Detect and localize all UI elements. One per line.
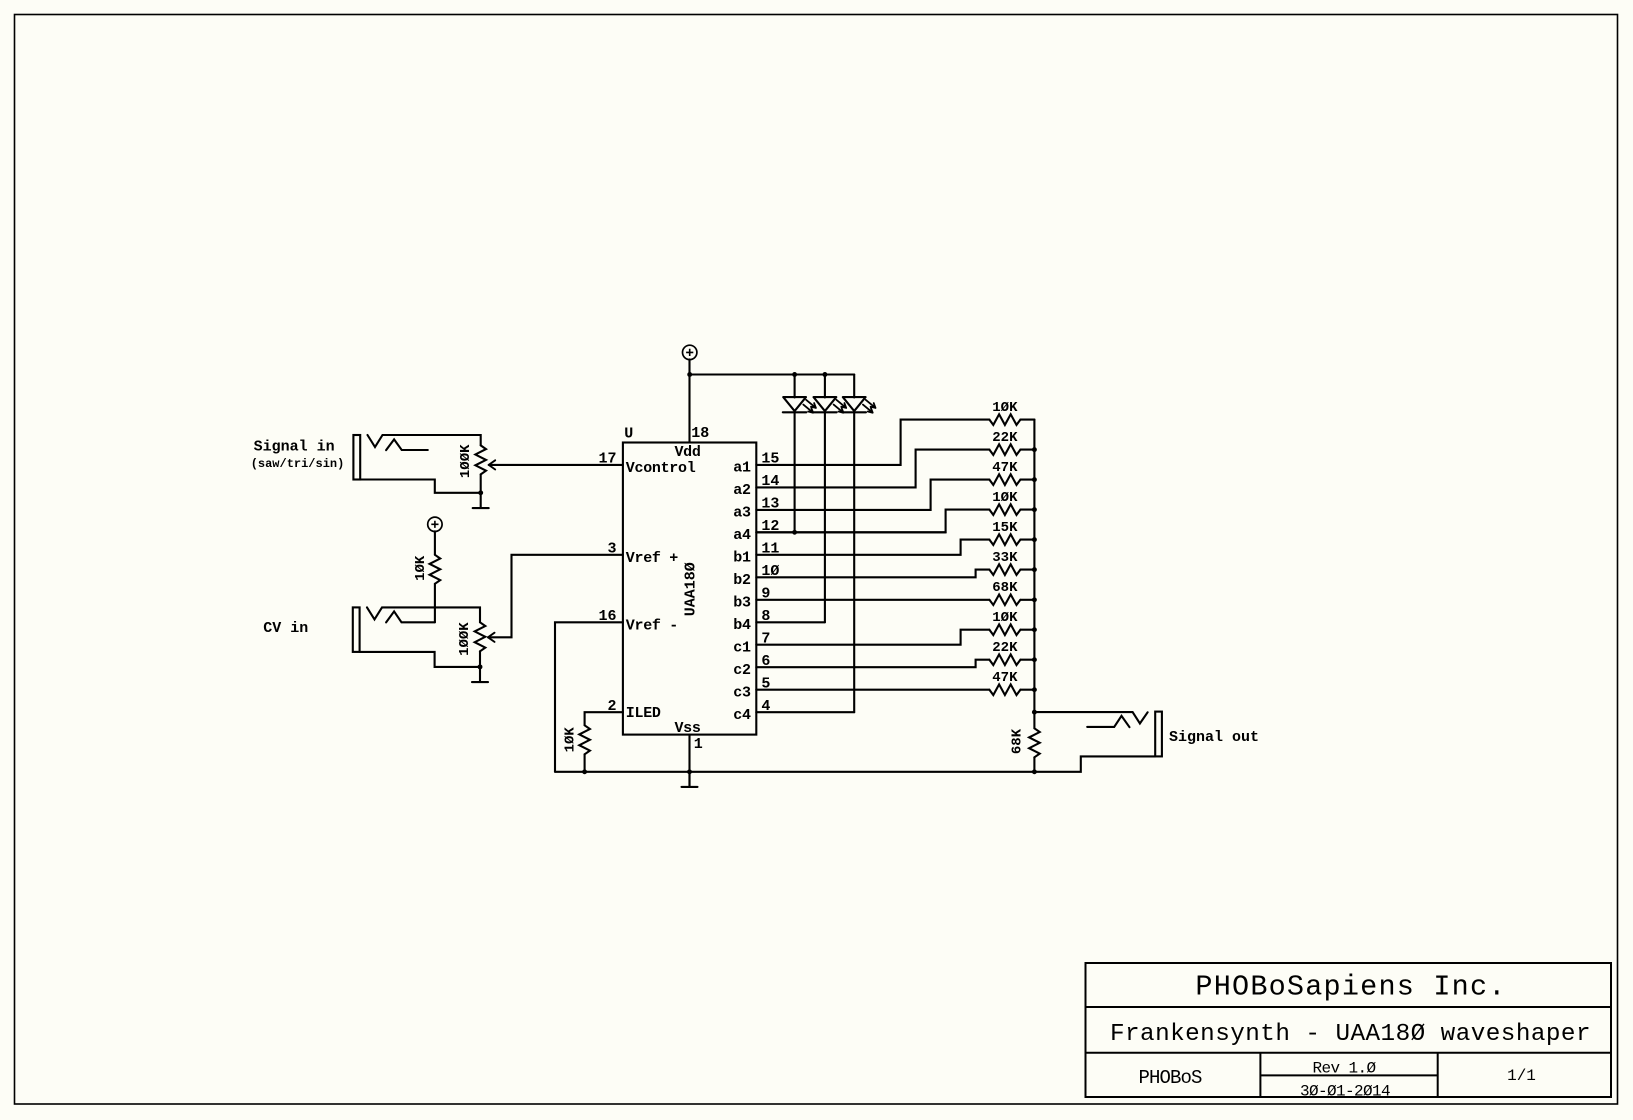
resistor 15K ladder: [989, 520, 1034, 545]
svg-text:b1: b1: [733, 550, 751, 567]
junction: [1032, 537, 1037, 542]
resistor 10K CV pullup: [413, 555, 440, 584]
svg-text:22K: 22K: [992, 640, 1018, 656]
junction: [1032, 657, 1037, 662]
junction: [1032, 477, 1037, 482]
svg-text:68K: 68K: [992, 580, 1018, 596]
resistor 1ØK ladder: [989, 610, 1034, 635]
wire +V bus to LEDs: [690, 373, 855, 375]
wire pin 5 c3: [756, 689, 989, 691]
wire pin 4 c4: [756, 711, 854, 713]
resistor 1ØK ladder: [989, 400, 1034, 425]
resistor 47K ladder: [989, 670, 1034, 695]
svg-text:Vref +: Vref +: [626, 550, 679, 567]
wire Vcontrol pin 17: [489, 464, 623, 466]
svg-text:ILED: ILED: [626, 705, 661, 722]
svg-text:c3: c3: [733, 685, 751, 702]
svg-text:PHOBoSapiens Inc.: PHOBoSapiens Inc.: [1195, 970, 1506, 1003]
svg-text:1ØØK: 1ØØK: [458, 444, 474, 478]
LED D1: [783, 397, 816, 413]
wire pin 12 a4: [756, 510, 989, 533]
junction pot1 ground: [478, 490, 483, 495]
junction ground rail output: [1032, 769, 1037, 774]
wire pin 11 b1: [756, 540, 989, 555]
junction: [1032, 597, 1037, 602]
connector jack CV in: [263, 607, 480, 667]
svg-text:(saw/tri/sin): (saw/tri/sin): [251, 457, 345, 471]
junction Vss rail: [687, 769, 692, 774]
svg-text:1/1: 1/1: [1507, 1067, 1536, 1085]
wire pin 15 a1: [756, 420, 989, 465]
power +V CV pullup: [428, 517, 442, 531]
LED D3: [842, 397, 875, 413]
svg-text:Frankensynth - UAA18Ø waveshap: Frankensynth - UAA18Ø waveshaper: [1110, 1021, 1591, 1048]
svg-text:22K: 22K: [992, 430, 1018, 446]
svg-text:18: 18: [691, 425, 709, 442]
resistor 22K ladder: [989, 640, 1034, 665]
wire pin 1Ø b2: [756, 570, 989, 578]
svg-text:a3: a3: [733, 505, 751, 522]
svg-text:a1: a1: [733, 460, 751, 477]
wire pin 9 b3: [756, 599, 989, 601]
wire pin 14 a2: [756, 450, 989, 488]
potentiometer 100K signal level: [458, 444, 495, 493]
svg-text:47K: 47K: [992, 670, 1018, 686]
junction output node: [1032, 710, 1037, 715]
resistor 68K ladder: [989, 580, 1034, 605]
ground pot2: [472, 667, 488, 682]
svg-text:Vcontrol: Vcontrol: [626, 460, 696, 477]
svg-text:a4: a4: [733, 527, 751, 544]
wire LED2 cathode to b4: [824, 412, 826, 622]
junction ILED resistor rail: [582, 769, 587, 774]
svg-text:c2: c2: [733, 662, 751, 679]
junction: [1032, 507, 1037, 512]
wire +V to 10K: [434, 531, 436, 555]
wire LED1 anode: [794, 375, 796, 398]
svg-text:Vref -: Vref -: [626, 617, 678, 634]
junction: [1032, 567, 1037, 572]
svg-text:1: 1: [694, 736, 703, 753]
svg-text:Rev 1.Ø: Rev 1.Ø: [1312, 1059, 1376, 1077]
connector jack Signal out: [1034, 712, 1259, 772]
resistor 47K ladder: [989, 460, 1034, 485]
svg-text:47K: 47K: [992, 460, 1018, 476]
wire ILED pin 2: [585, 712, 623, 725]
svg-text:1ØØK: 1ØØK: [457, 622, 473, 656]
wire pin 12 a4: [756, 531, 945, 533]
resistor 1ØK ladder: [989, 490, 1034, 515]
wire pin 8 b4: [756, 621, 825, 623]
svg-text:1ØK: 1ØK: [992, 490, 1018, 506]
junction: [1032, 447, 1037, 452]
wire Vss pin 1: [688, 735, 690, 787]
junction LED1 anode tap: [792, 372, 797, 377]
svg-text:b2: b2: [733, 572, 751, 589]
svg-text:68K: 68K: [1010, 728, 1026, 754]
wire 10K to jack switch: [434, 584, 436, 623]
power +V supply (top): [683, 345, 697, 359]
svg-text:CV in: CV in: [263, 620, 308, 637]
wire ground rail: [555, 771, 1034, 773]
svg-text:Vdd: Vdd: [674, 444, 700, 461]
svg-text:Signal in: Signal in: [254, 439, 335, 456]
wire pin 13 a3: [756, 480, 989, 510]
svg-text:b3: b3: [733, 595, 751, 612]
wire Vref- pin 16: [555, 622, 623, 772]
svg-text:3Ø-Ø1-2Ø14: 3Ø-Ø1-2Ø14: [1300, 1082, 1390, 1100]
svg-text:1ØK: 1ØK: [413, 555, 429, 581]
svg-text:U: U: [624, 426, 633, 443]
junction: [1032, 687, 1037, 692]
svg-text:b4: b4: [733, 617, 751, 634]
wire LED3 cathode to c4: [853, 412, 855, 712]
junction a4 LED1: [792, 530, 797, 535]
svg-text:UAA18Ø: UAA18Ø: [682, 562, 699, 616]
resistor 22K ladder: [989, 430, 1034, 455]
wire pin 6 c2: [756, 660, 989, 668]
wire summing bus: [1033, 420, 1035, 712]
svg-text:PHOBoS: PHOBoS: [1138, 1067, 1202, 1089]
wire Vref+ pin 3: [488, 555, 623, 638]
resistor 33K ladder: [989, 550, 1034, 575]
resistor 68K output: [1010, 712, 1040, 772]
svg-text:1ØK: 1ØK: [992, 610, 1018, 626]
svg-text:15K: 15K: [992, 520, 1018, 536]
svg-text:Signal out: Signal out: [1169, 729, 1259, 746]
svg-text:c4: c4: [733, 707, 751, 724]
junction: [1032, 627, 1037, 632]
svg-text:c1: c1: [733, 640, 751, 657]
wire LED3 anode: [853, 375, 855, 398]
wire LED2 anode: [824, 375, 826, 398]
svg-text:1ØK: 1ØK: [563, 727, 579, 753]
junction +V: [687, 372, 692, 377]
wire LED1 cathode to a4: [794, 412, 796, 532]
ground Vss: [682, 772, 698, 787]
resistor 10K ILED: [563, 725, 590, 772]
IC U UAA180: [598, 425, 779, 753]
junction pot2 ground: [478, 664, 483, 669]
connector jack Signal in: [251, 435, 481, 493]
svg-text:33K: 33K: [992, 550, 1018, 566]
LED D2: [813, 397, 846, 413]
svg-text:Vss: Vss: [674, 720, 700, 737]
wire Vdd pin18: [688, 359, 690, 442]
wire pin 7 c1: [756, 630, 989, 645]
svg-text:1ØK: 1ØK: [992, 400, 1018, 416]
junction LED2 anode tap: [822, 372, 827, 377]
potentiometer 100K CV amount: [457, 622, 494, 667]
ground pot1: [473, 493, 489, 508]
svg-text:a2: a2: [733, 482, 751, 499]
